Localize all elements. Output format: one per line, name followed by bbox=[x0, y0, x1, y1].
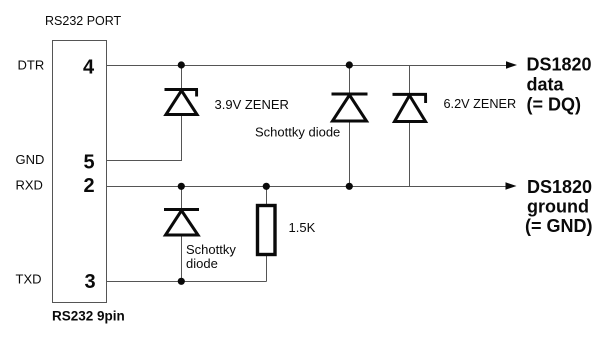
svg-text:(= GND): (= GND) bbox=[525, 216, 593, 236]
svg-text:RS232 PORT: RS232 PORT bbox=[45, 14, 122, 28]
RS232 port box bbox=[53, 41, 107, 303]
junction dot RXD/upper schottky bbox=[346, 183, 353, 190]
zener diode 3.9V symbol bbox=[165, 90, 199, 115]
junction dot RXD/resistor bbox=[263, 183, 270, 190]
wire resistor top lead bbox=[266, 187, 268, 206]
schottky diode upper symbol bbox=[332, 94, 368, 121]
svg-text:DTR: DTR bbox=[18, 58, 45, 73]
pin number 4 bbox=[83, 57, 95, 79]
svg-text:Schottky diode: Schottky diode bbox=[255, 125, 340, 140]
wire 3.9V zener top lead bbox=[181, 66, 183, 91]
svg-text:DS1820: DS1820 bbox=[527, 177, 592, 197]
svg-text:4: 4 bbox=[83, 57, 95, 79]
resistor 1.5K symbol bbox=[258, 206, 276, 255]
wire 6.2V zener bottom lead bbox=[409, 122, 411, 187]
wire 6.2V zener top lead bbox=[409, 66, 411, 95]
pin number 3 bbox=[85, 271, 96, 293]
zener diode 6.2V symbol bbox=[393, 94, 428, 121]
pin number 2 bbox=[84, 175, 95, 197]
svg-text:3: 3 bbox=[85, 271, 96, 293]
svg-text:Schottky: Schottky bbox=[186, 242, 236, 257]
svg-text:1.5K: 1.5K bbox=[289, 220, 316, 235]
label Schottky diode (lower, two lines) bbox=[186, 242, 236, 271]
pin label TXD bbox=[16, 272, 42, 287]
wire resistor bottom lead bbox=[266, 255, 268, 282]
pin label RXD bbox=[16, 178, 43, 193]
junction dot TXD/lower schottky bbox=[178, 278, 185, 285]
wire upper schottky top lead bbox=[349, 66, 351, 95]
svg-text:data: data bbox=[527, 75, 565, 95]
svg-text:3.9V ZENER: 3.9V ZENER bbox=[215, 97, 289, 112]
arrowhead DS1820 ground bbox=[506, 182, 517, 189]
label RS232 9pin bbox=[52, 309, 125, 324]
svg-text:(= DQ): (= DQ) bbox=[527, 95, 582, 115]
wire 3.9V zener bottom lead bbox=[181, 115, 183, 161]
arrowhead DS1820 data bbox=[506, 61, 517, 68]
label RS232 PORT bbox=[45, 14, 122, 28]
svg-text:diode: diode bbox=[186, 256, 218, 271]
wire upper schottky bottom lead bbox=[349, 121, 351, 187]
pin label GND bbox=[16, 152, 45, 167]
svg-text:DS1820: DS1820 bbox=[527, 55, 592, 75]
svg-text:6.2V ZENER: 6.2V ZENER bbox=[444, 97, 517, 111]
junction dot RXD/lower schottky bbox=[178, 183, 185, 190]
svg-text:5: 5 bbox=[84, 152, 95, 174]
label DS1820 ground (= GND) bbox=[525, 177, 593, 236]
label DS1820 data (= DQ) bbox=[527, 55, 592, 115]
label Schottky diode (upper) bbox=[255, 125, 340, 140]
svg-text:RS232 9pin: RS232 9pin bbox=[52, 309, 125, 324]
svg-text:2: 2 bbox=[84, 175, 95, 197]
junction dot DTR/3.9V zener bbox=[178, 61, 185, 68]
wire lower schottky bottom lead bbox=[181, 235, 183, 282]
wire DTR line (pin 4 to data arrow) bbox=[107, 65, 508, 67]
schottky diode lower symbol bbox=[164, 210, 199, 236]
label 6.2V ZENER bbox=[444, 97, 517, 111]
label 3.9V ZENER bbox=[215, 97, 289, 112]
wire GND stub (pin 5 to zener bottom) bbox=[107, 160, 183, 162]
svg-text:TXD: TXD bbox=[16, 272, 42, 287]
pin label DTR bbox=[18, 58, 45, 73]
label 1.5K bbox=[289, 220, 316, 235]
wire RXD line (pin 2 to ground arrow) bbox=[107, 186, 507, 188]
svg-text:RXD: RXD bbox=[16, 178, 43, 193]
svg-text:GND: GND bbox=[16, 152, 45, 167]
junction dot DTR/upper schottky bbox=[346, 61, 353, 68]
wire lower schottky top lead bbox=[181, 187, 183, 211]
svg-text:ground: ground bbox=[527, 197, 589, 217]
wire TXD line (pin 3 to resistor bottom) bbox=[107, 281, 267, 283]
pin number 5 bbox=[84, 152, 95, 174]
